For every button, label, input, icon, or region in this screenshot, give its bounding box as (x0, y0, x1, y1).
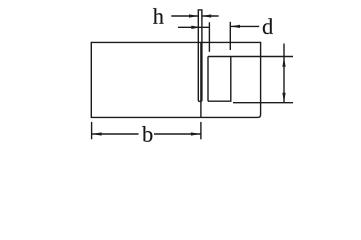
bottom extension line (233, 102, 293, 104)
dimension line d left (178, 26, 209, 28)
arrowhead vertical bottom (282, 93, 285, 103)
arrowhead h right (202, 14, 212, 17)
extension line d right (229, 22, 231, 50)
extension line d left (208, 22, 210, 52)
dimension line b (92, 133, 201, 135)
slot rectangle (208, 57, 231, 102)
arrowhead d-dim left (191, 26, 201, 29)
label d (263, 18, 273, 34)
hub/shaft divider wire (200, 42, 202, 117)
extension line b right (200, 122, 202, 139)
arrowhead b right (191, 132, 201, 135)
extension line b left (91, 122, 93, 139)
arrowhead b left (92, 132, 102, 135)
label h (153, 8, 164, 24)
pin (vertical key) (198, 10, 202, 102)
arrowhead vertical top (282, 57, 285, 67)
vertical dimension line (283, 44, 285, 103)
arrowhead d-dim right (230, 25, 240, 28)
dimension line h left (171, 15, 198, 17)
dimension line h right (202, 15, 219, 17)
dimension line d right (230, 25, 259, 27)
arrowhead h left (189, 14, 199, 17)
hub bore top edge + right extension line (208, 56, 293, 58)
label b (142, 126, 152, 142)
shaft body outline (91, 42, 260, 117)
